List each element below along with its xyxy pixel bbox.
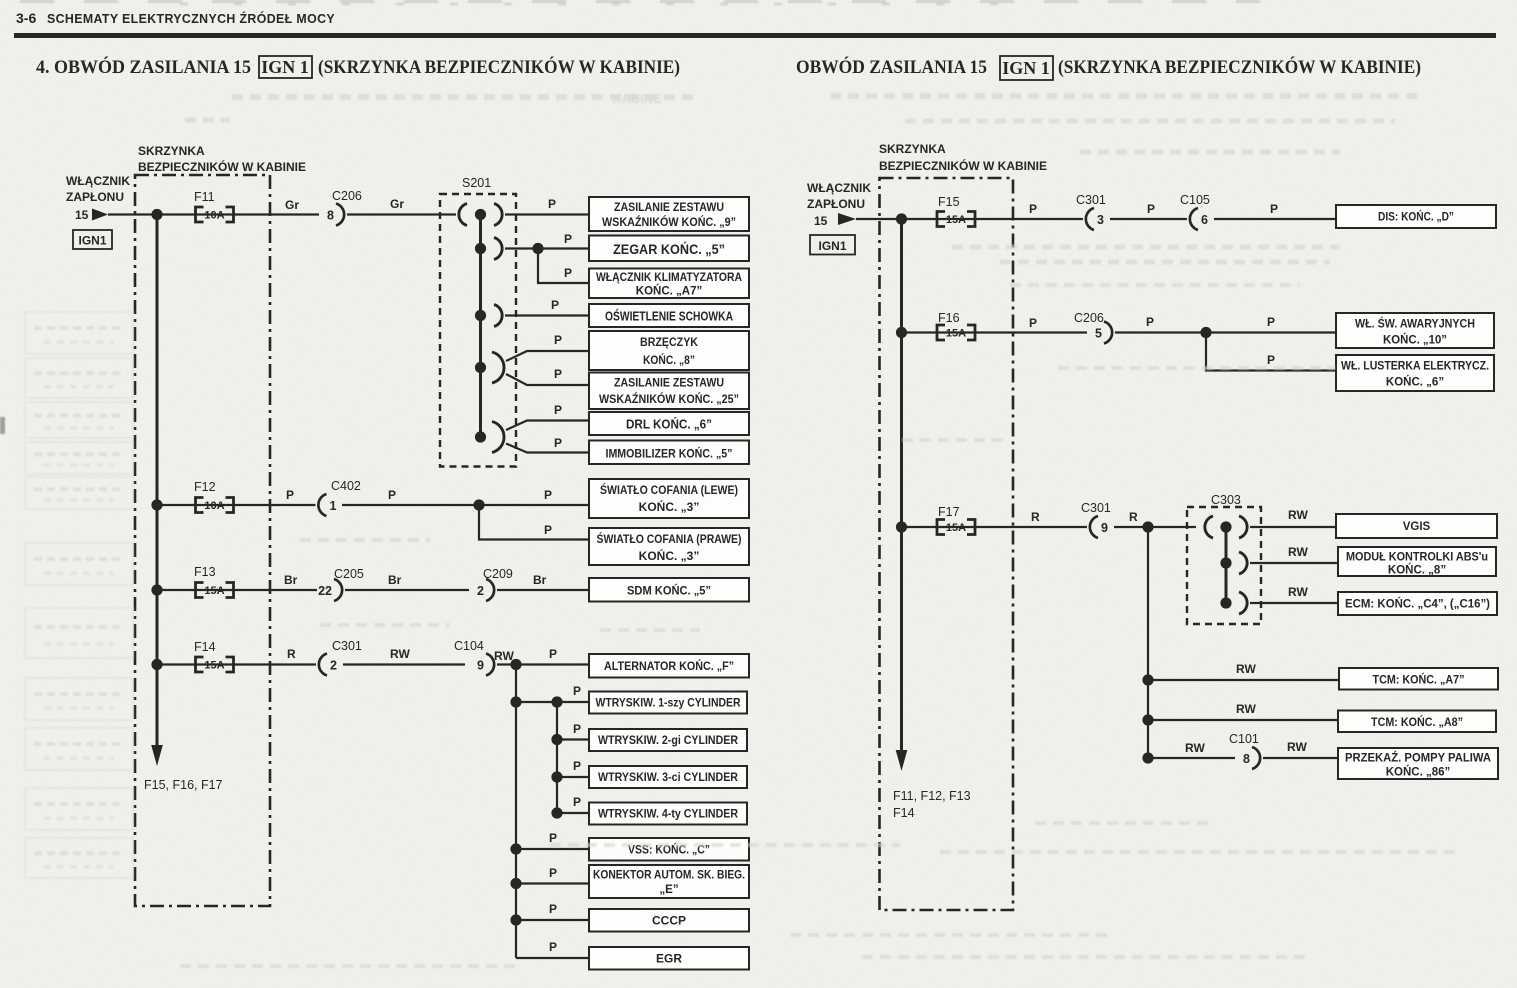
terminal box KONEKTOR AUTOM SK BIEG — [589, 865, 749, 898]
svg-text:S201: S201 — [462, 176, 491, 190]
svg-text:C301: C301 — [332, 639, 362, 653]
C303 row3 arc — [1239, 592, 1247, 614]
wire to injector 3 — [557, 776, 589, 778]
svg-text:F13: F13 — [194, 565, 216, 579]
svg-text:RW: RW — [1185, 741, 1205, 755]
svg-text:KOŃC. „10”: KOŃC. „10” — [1383, 334, 1447, 347]
svg-text:KONEKTOR AUTOM. SK. BIEG.: KONEKTOR AUTOM. SK. BIEG. — [593, 870, 745, 882]
svg-text:P: P — [564, 232, 572, 246]
svg-text:P: P — [1267, 353, 1275, 367]
wire drop to lusterka — [1206, 333, 1336, 371]
junction node F14 — [151, 659, 162, 670]
connector C301 pin 3 — [1086, 208, 1104, 230]
svg-text:C105: C105 — [1180, 193, 1210, 207]
svg-text:R: R — [287, 647, 296, 661]
svg-text:C205: C205 — [334, 567, 364, 581]
junction node F17 — [896, 521, 907, 532]
connector C101 pin 8 — [1243, 747, 1260, 769]
svg-text:EGR: EGR — [656, 952, 682, 966]
wire C301 to C105 — [1110, 218, 1187, 220]
C303 row1 node — [1220, 521, 1231, 532]
svg-text:P: P — [1029, 316, 1037, 330]
wire F14 through fuse — [157, 663, 316, 665]
svg-text:5: 5 — [1095, 327, 1102, 341]
terminal box WTRYSKIW 1 — [589, 692, 747, 714]
svg-text:WSKAŹNIKÓW KOŃC. „9”: WSKAŹNIKÓW KOŃC. „9” — [602, 216, 736, 229]
svg-text:„E”: „E” — [659, 884, 678, 896]
wire fan to box 25 — [506, 374, 589, 385]
svg-text:WŁ. ŚW. AWARYJNYCH: WŁ. ŚW. AWARYJNYCH — [1355, 318, 1475, 331]
left fuse box label — [138, 144, 306, 174]
svg-text:P: P — [554, 333, 562, 347]
vertical feed wire below C104 — [515, 665, 517, 959]
C303 internal bus — [1225, 527, 1228, 603]
svg-text:IGN1: IGN1 — [818, 239, 846, 253]
svg-text:Br: Br — [533, 573, 547, 587]
terminal box ZASILANIE ZESTAWU 25 — [589, 373, 749, 410]
svg-text:P: P — [573, 795, 581, 809]
terminal box OSWIETLENIE SCHOWKA — [589, 304, 749, 327]
terminal box SDM — [589, 578, 749, 602]
svg-text:P: P — [573, 684, 581, 698]
svg-text:P: P — [551, 298, 559, 312]
svg-text:MODUŁ KONTROLKI ABS'u: MODUŁ KONTROLKI ABS'u — [1346, 552, 1488, 564]
svg-text:R: R — [1031, 510, 1040, 524]
svg-text:TCM: KOŃC. „A8”: TCM: KOŃC. „A8” — [1371, 716, 1463, 729]
junction node C303 feed — [1142, 521, 1153, 532]
junction node F13 — [151, 584, 162, 595]
header rule — [14, 33, 1496, 38]
fuse F11 10A — [196, 207, 234, 222]
svg-text:BEZPIECZNIKÓW W KABINIE: BEZPIECZNIKÓW W KABINIE — [138, 159, 306, 174]
left diagram title — [36, 56, 680, 78]
svg-text:RW: RW — [1288, 545, 1308, 559]
wire drop to swiatlo cofania prawe — [479, 505, 589, 540]
svg-text:KOŃC. „A7”: KOŃC. „A7” — [636, 285, 702, 298]
svg-text:F16: F16 — [938, 311, 960, 325]
svg-text:ZASILANIE ZESTAWU: ZASILANIE ZESTAWU — [614, 202, 724, 214]
terminal box ALTERNATOR — [589, 654, 749, 678]
svg-text:F15, F16, F17: F15, F16, F17 — [144, 778, 223, 792]
connector C402 pin 1 — [318, 494, 336, 516]
wire to VSS — [516, 848, 589, 850]
svg-text:F17: F17 — [938, 505, 960, 519]
terminal box VGIS — [1336, 514, 1497, 538]
wire C104 to junction — [497, 663, 516, 665]
svg-text:RW: RW — [1288, 585, 1308, 599]
svg-text:F15: F15 — [938, 195, 960, 209]
wire to konektor — [516, 882, 589, 884]
svg-text:SKRZYNKA: SKRZYNKA — [138, 144, 205, 158]
svg-text:15A: 15A — [946, 328, 966, 340]
ignition switch label right — [807, 181, 871, 228]
svg-text:RW: RW — [390, 647, 410, 661]
svg-text:RW: RW — [1287, 740, 1307, 754]
S201 row2 node — [475, 243, 486, 254]
terminal box WL LUSTERKA — [1336, 355, 1494, 391]
svg-text:8: 8 — [1243, 752, 1250, 766]
S201 row5 fan arc — [492, 422, 504, 453]
svg-text:SKRZYNKA: SKRZYNKA — [879, 142, 946, 156]
terminal box MODUL KONTROLKI ABS — [1338, 547, 1496, 577]
svg-text:RW: RW — [1288, 508, 1308, 522]
svg-text:DIS: KOŃC. „D”: DIS: KOŃC. „D” — [1378, 211, 1454, 224]
svg-text:P: P — [549, 902, 557, 916]
C303 row2 arc — [1239, 552, 1247, 574]
splice S201 box — [440, 194, 516, 467]
junction node alternator — [510, 659, 521, 670]
splice C303 box — [1187, 507, 1261, 624]
svg-text:WSKAŹNIKÓW KOŃC. „25”: WSKAŹNIKÓW KOŃC. „25” — [599, 393, 739, 406]
svg-text:F14: F14 — [194, 640, 216, 654]
svg-text:C402: C402 — [331, 479, 361, 493]
fuse F15 15A — [937, 212, 975, 227]
svg-text:CCCP: CCCP — [652, 914, 686, 928]
C303 row3 node — [1220, 597, 1231, 608]
C303 row2 node — [1220, 557, 1231, 568]
terminal box TCM A7 — [1339, 668, 1498, 690]
wire C301 to C104 — [343, 663, 465, 665]
terminal box WTRYSKIW 3 — [589, 766, 747, 788]
terminal box ECM — [1338, 592, 1497, 615]
junction node CCCP — [510, 914, 521, 925]
terminal box SWIATLO COFANIA PRAWE — [589, 528, 749, 565]
S201 row3 arc — [494, 305, 502, 327]
svg-text:KOŃC. „8”: KOŃC. „8” — [1388, 564, 1446, 577]
right fuse box label — [879, 142, 1047, 173]
svg-text:OBWÓD ZASILANIA 15: OBWÓD ZASILANIA 15 — [796, 56, 987, 78]
terminal box IMMOBILIZER — [589, 441, 749, 465]
injector branch wire — [516, 702, 557, 813]
svg-text:8: 8 — [327, 209, 334, 223]
svg-text:Gr: Gr — [390, 197, 404, 211]
junction node F11 — [151, 209, 162, 220]
terminal box EGR — [589, 947, 749, 970]
terminal box WTRYSKIW 2 — [589, 729, 747, 751]
wire C303 to VGIS — [1250, 526, 1336, 528]
junction node cofania — [473, 499, 484, 510]
svg-text:IGN 1: IGN 1 — [1002, 58, 1050, 78]
svg-text:P: P — [1029, 202, 1037, 216]
svg-text:15: 15 — [814, 214, 828, 228]
svg-text:P: P — [1267, 315, 1275, 329]
svg-text:RW: RW — [1236, 702, 1256, 716]
arrow down F11-F14 — [896, 750, 908, 771]
C303 row1 left arc — [1205, 516, 1213, 538]
svg-text:VGIS: VGIS — [1403, 521, 1431, 533]
svg-text:ZEGAR KOŃC. „5”: ZEGAR KOŃC. „5” — [613, 241, 725, 257]
wire C206 to junction — [1115, 331, 1336, 333]
svg-text:3: 3 — [1097, 213, 1104, 227]
svg-text:WTRYSKIW. 4-ty CYLINDER: WTRYSKIW. 4-ty CYLINDER — [598, 809, 739, 821]
svg-text:IGN 1: IGN 1 — [261, 57, 309, 77]
IGN1 node box left — [73, 230, 112, 249]
svg-text:DRL KOŃC. „6”: DRL KOŃC. „6” — [626, 417, 712, 432]
wire to injector 4 — [557, 812, 589, 814]
fuse F17 15A — [937, 520, 975, 535]
wire F13 through fuse — [157, 589, 317, 591]
fuse box (dash-dot) left — [135, 175, 270, 906]
left bus wire — [156, 215, 159, 749]
svg-text:ŚWIATŁO COFANIA (LEWE): ŚWIATŁO COFANIA (LEWE) — [600, 482, 738, 497]
connector C205 pin 22 — [318, 579, 342, 601]
connector C104 pin 9 — [477, 654, 494, 676]
svg-text:P: P — [554, 436, 562, 450]
S201 internal bus — [479, 215, 482, 438]
svg-text:IGN1: IGN1 — [78, 234, 106, 248]
junction node F15 — [896, 213, 907, 224]
svg-text:SCHEMATY ELEKTRYCZNYCH ŹRÓDEŁ: SCHEMATY ELEKTRYCZNYCH ŹRÓDEŁ MOCY — [47, 11, 335, 26]
svg-text:P: P — [388, 488, 396, 502]
svg-text:P: P — [549, 866, 557, 880]
svg-text:C303: C303 — [1211, 493, 1241, 507]
arrow down F15,F16,F17 — [151, 745, 163, 766]
terminal box WTRYSKIW 4 — [589, 803, 747, 825]
wire to CCCP — [516, 919, 589, 921]
terminal box PRZEKAZNIK POMPY PALIWA — [1338, 748, 1498, 779]
svg-text:WŁĄCZNIK KLIMATYZATORA: WŁĄCZNIK KLIMATYZATORA — [596, 272, 742, 284]
svg-text:RW: RW — [1236, 662, 1256, 676]
svg-text:IMMOBILIZER KOŃC. „5”: IMMOBILIZER KOŃC. „5” — [606, 446, 733, 461]
svg-text:ALTERNATOR KOŃC. „F”: ALTERNATOR KOŃC. „F” — [604, 658, 734, 673]
svg-text:15A: 15A — [946, 214, 966, 226]
svg-text:2: 2 — [477, 584, 484, 598]
junction node TCM A8 — [1142, 714, 1153, 725]
svg-text:TCM: KOŃC. „A7”: TCM: KOŃC. „A7” — [1373, 674, 1465, 687]
svg-text:10A: 10A — [204, 210, 224, 222]
svg-text:ECM: KOŃC. „C4”, („C16”): ECM: KOŃC. „C4”, („C16”) — [1345, 598, 1490, 611]
junction node zegar — [532, 243, 543, 254]
svg-text:KOŃC. „3”: KOŃC. „3” — [639, 548, 700, 563]
terminal box SWIATLO COFANIA LEWE — [589, 479, 749, 518]
svg-text:ZAPŁONU: ZAPŁONU — [66, 190, 124, 204]
svg-text:P: P — [573, 759, 581, 773]
svg-text:P: P — [554, 367, 562, 381]
wire C303 to ECM — [1250, 602, 1338, 604]
connector C301 pin 9 — [1090, 516, 1108, 538]
svg-text:P: P — [573, 722, 581, 736]
IGN1 node box right — [810, 235, 855, 255]
svg-text:C206: C206 — [332, 189, 362, 203]
svg-text:Br: Br — [388, 573, 402, 587]
wire to injector 1 — [557, 701, 589, 703]
right diagram title — [796, 56, 1421, 80]
svg-text:6: 6 — [1201, 213, 1208, 227]
svg-text:WTRYSKIW. 3-ci CYLINDER: WTRYSKIW. 3-ci CYLINDER — [598, 772, 739, 784]
svg-text:P: P — [286, 488, 294, 502]
junction node konektor — [510, 878, 521, 889]
wire to TCM A7 — [1148, 679, 1339, 681]
wire F16 through fuse — [902, 331, 1088, 333]
terminal 15 arrow right — [838, 213, 856, 225]
svg-text:WTRYSKIW. 1-szy CYLINDER: WTRYSKIW. 1-szy CYLINDER — [596, 698, 742, 710]
junction node injector 4 — [551, 807, 562, 818]
svg-text:P: P — [1147, 202, 1155, 216]
junction node TCM A7 — [1142, 674, 1153, 685]
svg-text:P: P — [1146, 315, 1154, 329]
svg-text:9: 9 — [1101, 521, 1108, 535]
wire 15 to F11 through fuse — [108, 213, 319, 215]
svg-text:10A: 10A — [204, 500, 224, 512]
vertical wire below C303 feed — [1147, 527, 1149, 758]
junction node awaryjne — [1200, 327, 1211, 338]
S201 row1 left arc — [459, 204, 467, 226]
C303 row1 right arc — [1239, 516, 1247, 538]
connector C209 pin 2 — [477, 579, 494, 601]
svg-text:Gr: Gr — [285, 198, 299, 212]
junction node injector 2 — [551, 734, 562, 745]
wire 15 to F15 through fuse — [856, 218, 1083, 220]
junction node pompa paliwa — [1142, 752, 1153, 763]
wire C206 to S201 — [347, 213, 456, 215]
svg-text:P: P — [548, 197, 556, 211]
svg-text:22: 22 — [318, 584, 332, 598]
svg-text:P: P — [549, 831, 557, 845]
S201 row1 right arc — [494, 204, 502, 226]
svg-text:F11: F11 — [194, 190, 215, 204]
svg-text:SDM KOŃC. „5”: SDM KOŃC. „5” — [627, 583, 711, 598]
svg-text:OŚWIETLENIE SCHOWKA: OŚWIETLENIE SCHOWKA — [605, 309, 733, 324]
svg-text:BRZĘCZYK: BRZĘCZYK — [640, 335, 698, 349]
svg-text:2: 2 — [330, 659, 337, 673]
svg-text:WŁĄCZNIK: WŁĄCZNIK — [807, 181, 871, 195]
terminal box ZEGAR — [589, 236, 749, 262]
svg-text:4. OBWÓD ZASILANIA 15: 4. OBWÓD ZASILANIA 15 — [36, 56, 251, 78]
terminal box BRZECZYK — [589, 331, 749, 370]
svg-text:(SKRZYNKA BEZPIECZNIKÓW W KABI: (SKRZYNKA BEZPIECZNIKÓW W KABINIE) — [1058, 56, 1421, 78]
svg-text:R: R — [1129, 510, 1138, 524]
terminal box TCM A8 — [1338, 711, 1496, 733]
svg-text:RW: RW — [494, 649, 514, 663]
S201 row3 node — [475, 310, 486, 321]
wire to TCM A8 — [1148, 719, 1338, 721]
junction node injector feed — [510, 696, 521, 707]
terminal box DRL — [589, 412, 749, 435]
junction node injector 3 — [551, 771, 562, 782]
wire fan to immobilizer — [506, 444, 589, 453]
terminal box DIS — [1336, 205, 1496, 228]
S201 row2 arc — [494, 238, 502, 260]
svg-text:3-6: 3-6 — [16, 10, 36, 26]
svg-text:KABINE: KABINE — [612, 91, 662, 106]
svg-text:KOŃC. „8”: KOŃC. „8” — [643, 352, 695, 367]
svg-text:P: P — [554, 403, 562, 417]
fuse F16 15A — [937, 325, 975, 340]
connector C206 pin 8 — [327, 204, 344, 226]
terminal 15 arrow — [92, 209, 108, 221]
svg-text:15A: 15A — [204, 585, 224, 597]
junction node F16 — [896, 327, 907, 338]
wire to injector 2 — [557, 738, 589, 740]
junction node VSS — [510, 843, 521, 854]
fuse F12 10A — [196, 498, 234, 513]
svg-text:C104: C104 — [454, 639, 484, 653]
right bus wire — [900, 219, 903, 750]
wire to alternator — [516, 663, 589, 665]
wire C209 to SDM — [497, 589, 589, 591]
svg-text:F12: F12 — [194, 480, 216, 494]
svg-text:ŚWIATŁO COFANIA (PRAWE): ŚWIATŁO COFANIA (PRAWE) — [597, 531, 742, 546]
svg-text:C101: C101 — [1229, 732, 1259, 746]
wire S201 to box 9 — [505, 213, 589, 215]
fuse F13 15A — [196, 583, 234, 598]
wire fan to DRL — [506, 421, 589, 431]
ignition switch label left — [66, 174, 130, 222]
svg-text:F11, F12, F13: F11, F12, F13 — [893, 789, 971, 803]
wire C402 to junction — [342, 504, 479, 506]
S201 row1 node — [475, 209, 486, 220]
wire to swiatlo cofania lewe — [479, 504, 589, 506]
wire corner to EGR — [516, 957, 589, 959]
svg-text:F14: F14 — [893, 806, 915, 820]
wire C205 to C209 — [345, 589, 469, 591]
svg-text:P: P — [1270, 202, 1278, 216]
svg-text:C301: C301 — [1076, 193, 1106, 207]
wire S201 row3 — [505, 314, 589, 316]
terminal box CCCP — [589, 909, 749, 932]
svg-text:(SKRZYNKA BEZPIECZNIKÓW W KABI: (SKRZYNKA BEZPIECZNIKÓW W KABINIE) — [318, 56, 680, 78]
fuse F14 15A — [196, 657, 234, 672]
svg-text:BEZPIECZNIKÓW W KABINIE: BEZPIECZNIKÓW W KABINIE — [879, 158, 1047, 173]
svg-text:P: P — [549, 940, 557, 954]
svg-text:P: P — [544, 488, 552, 502]
connector C206 pin 5 — [1095, 322, 1112, 344]
wire S201 row2 — [505, 247, 589, 249]
S201 row5 node — [475, 431, 486, 442]
wire fan to brzeczyk — [506, 351, 589, 361]
svg-text:P: P — [544, 523, 552, 537]
terminal box VSS — [589, 838, 749, 861]
svg-text:Br: Br — [284, 573, 298, 587]
svg-text:WŁĄCZNIK: WŁĄCZNIK — [66, 174, 130, 188]
svg-text:KOŃC. „6”: KOŃC. „6” — [1386, 376, 1444, 389]
wire C101 to przekaznik — [1263, 757, 1338, 759]
connector C301 pin 2 — [319, 654, 337, 676]
wire C301-9 to junction — [1114, 526, 1196, 528]
terminal box WLACZNIK KLIMATYZATORA — [589, 269, 749, 299]
svg-text:P: P — [549, 647, 557, 661]
wire drop to klimatyzator — [538, 249, 589, 284]
terminal box ZASILANIE ZESTAWU 9 — [589, 197, 749, 231]
junction node F12 — [151, 499, 162, 510]
svg-text:KOŃC. „86”: KOŃC. „86” — [1386, 766, 1451, 779]
S201 row4 fan arc — [492, 352, 504, 383]
svg-text:P: P — [564, 266, 572, 280]
junction node injector 1 — [551, 696, 562, 707]
page header text — [16, 10, 335, 26]
svg-text:ZAPŁONU: ZAPŁONU — [807, 197, 865, 211]
wire C303 to modul ABS — [1250, 562, 1338, 564]
connector C105 pin 6 — [1190, 208, 1208, 230]
wire C105 to DIS — [1214, 218, 1336, 220]
wire F17 through fuse — [902, 526, 1088, 528]
wire F12 through fuse — [157, 504, 316, 506]
svg-text:PRZEKAŹ. POMPY PALIWA: PRZEKAŹ. POMPY PALIWA — [1345, 752, 1491, 765]
svg-text:C301: C301 — [1081, 501, 1111, 515]
svg-text:15: 15 — [75, 208, 89, 222]
svg-text:WŁ. LUSTERKA ELEKTRYCZ.: WŁ. LUSTERKA ELEKTRYCZ. — [1341, 361, 1489, 373]
terminal box WL SW AWARYJNYCH — [1336, 313, 1494, 348]
svg-text:9: 9 — [477, 659, 484, 673]
svg-text:KOŃC. „3”: KOŃC. „3” — [639, 499, 700, 514]
wire to C101 — [1148, 757, 1235, 759]
svg-text:15A: 15A — [946, 522, 966, 534]
S201 row4 node — [475, 362, 486, 373]
svg-text:1: 1 — [330, 499, 337, 513]
svg-text:ZASILANIE ZESTAWU: ZASILANIE ZESTAWU — [614, 378, 724, 390]
fuse box (dash-dot) right — [880, 178, 1014, 910]
svg-text:WTRYSKIW. 2-gi CYLINDER: WTRYSKIW. 2-gi CYLINDER — [598, 735, 739, 747]
